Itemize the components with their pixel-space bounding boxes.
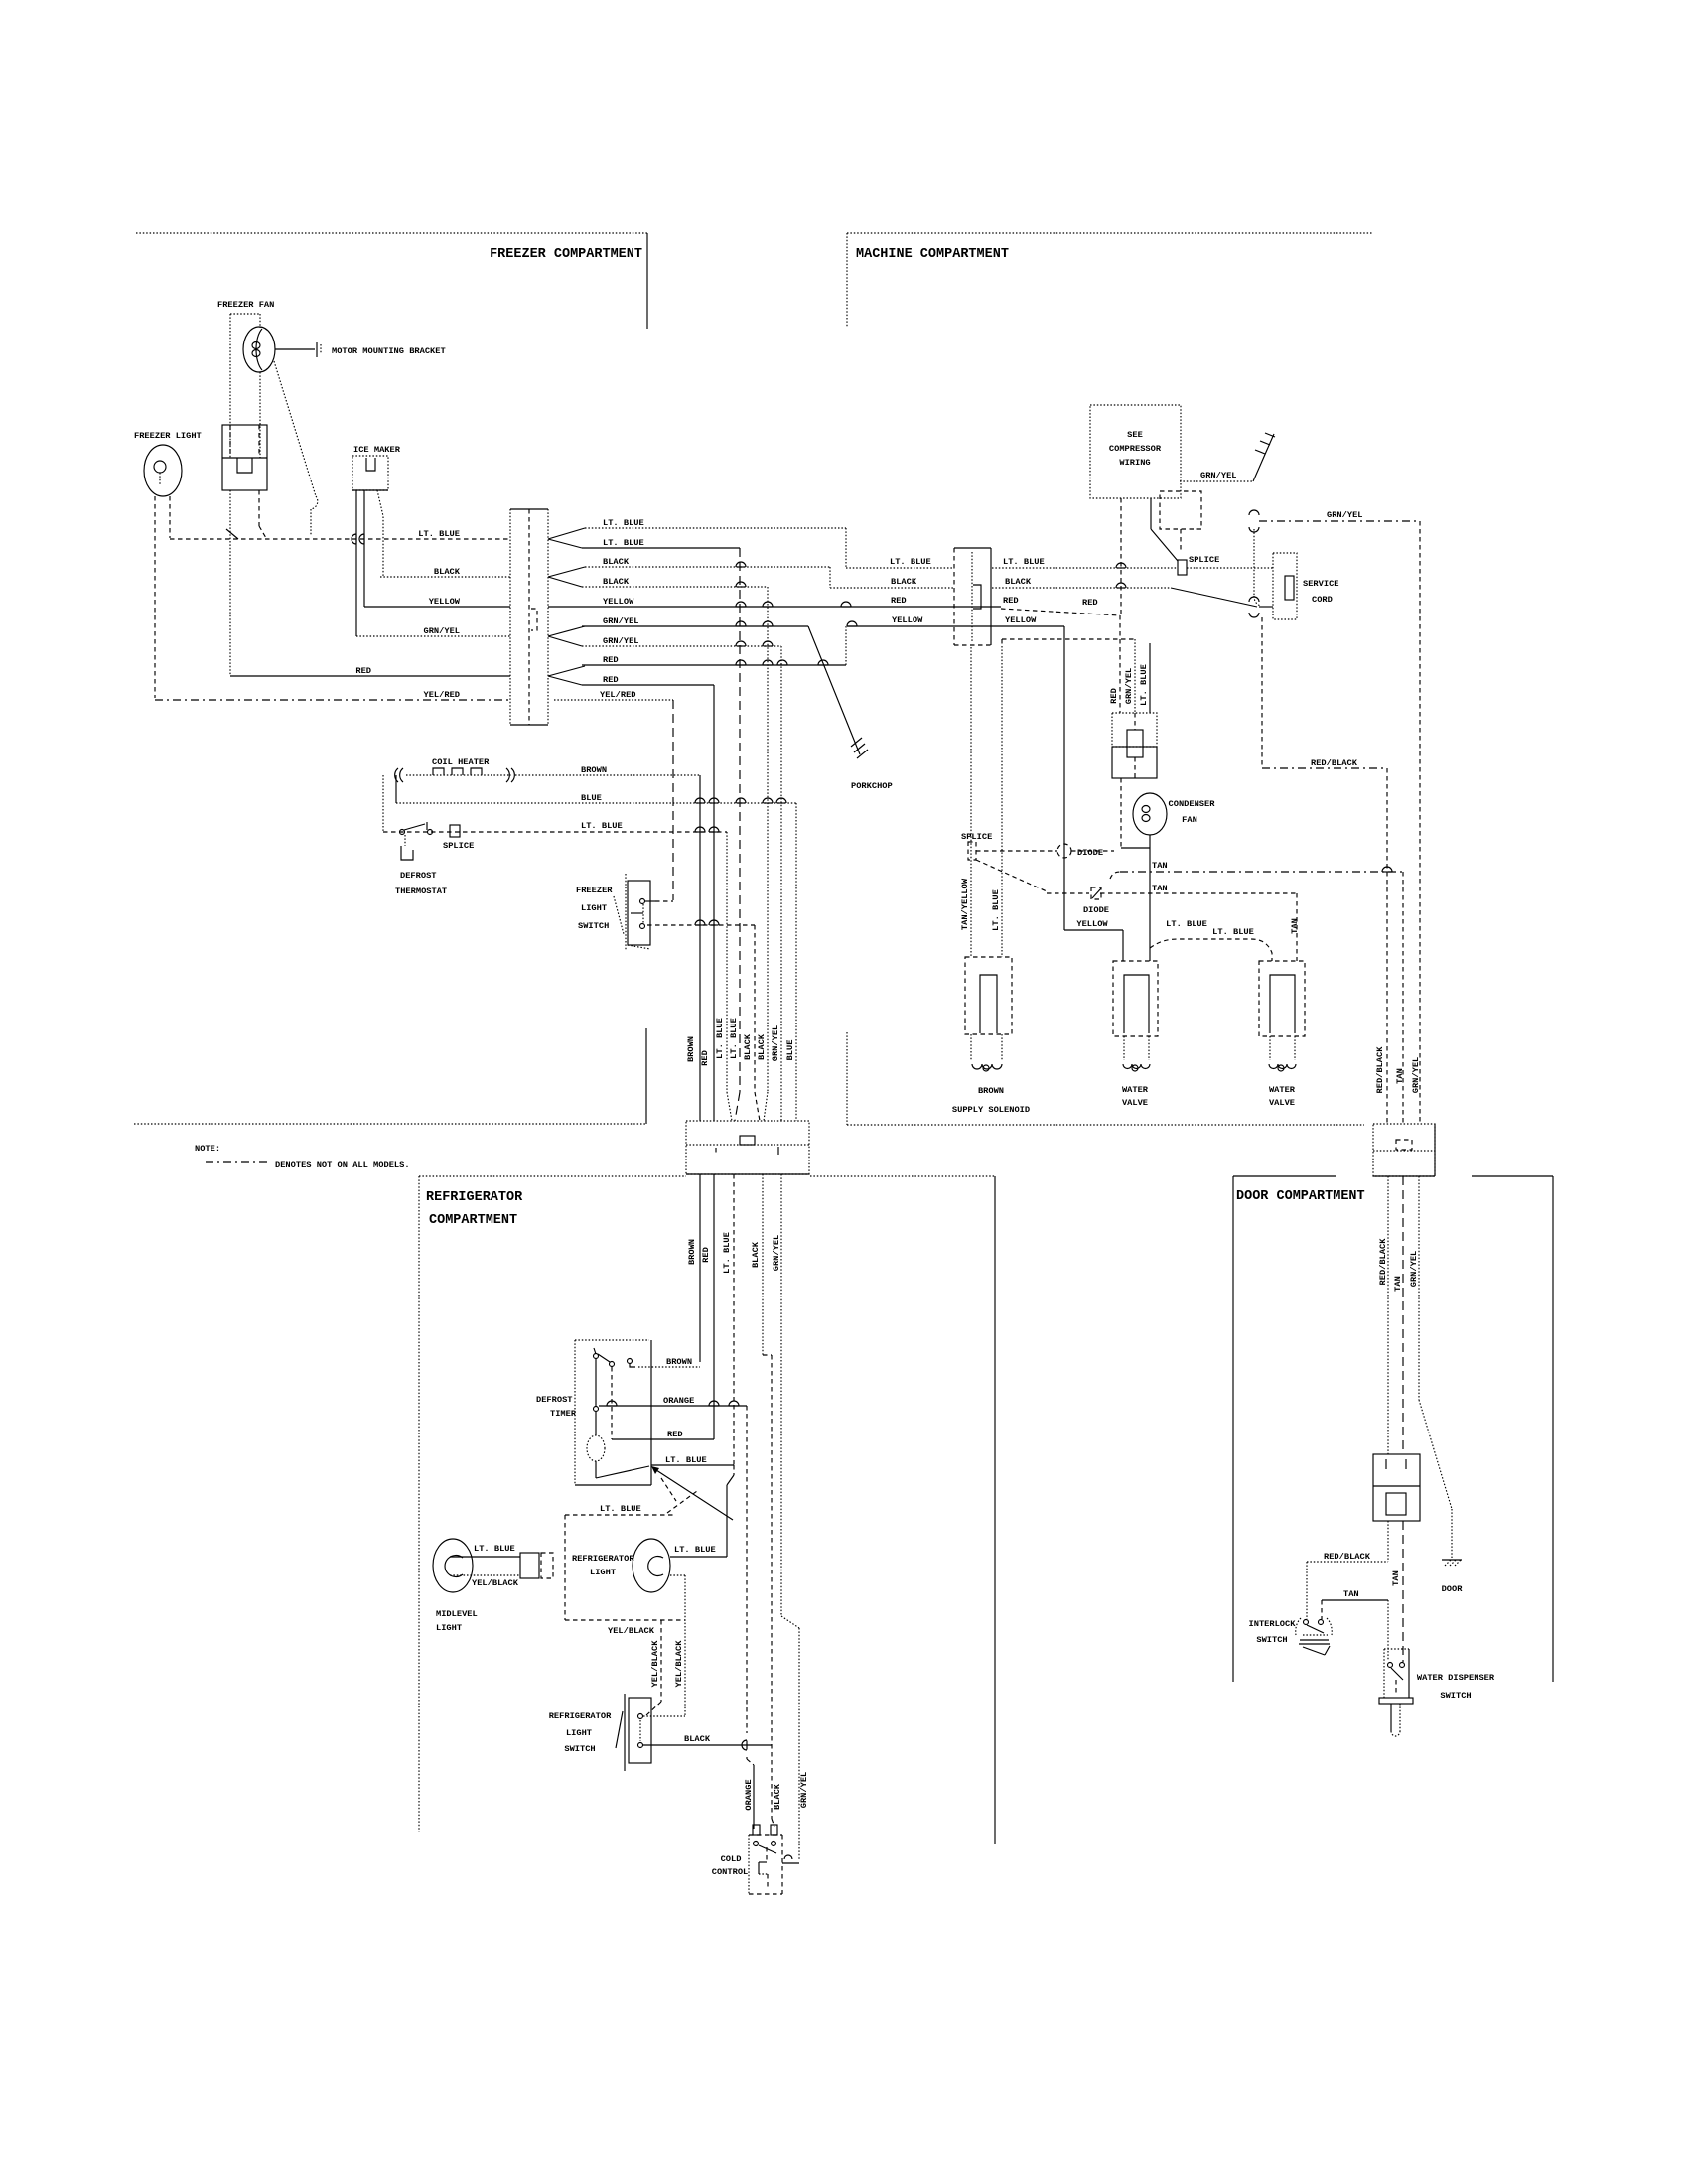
- svg-text:BLACK: BLACK: [751, 1241, 761, 1268]
- svg-text:TAN/YELLOW: TAN/YELLOW: [960, 878, 970, 930]
- water valve 1: [1113, 961, 1158, 1036]
- wire grn/yel row left: [356, 635, 510, 637]
- svg-text:YEL/RED: YEL/RED: [424, 690, 461, 700]
- svg-text:LT. BLUE: LT. BLUE: [603, 518, 644, 528]
- svg-text:LT. BLUE: LT. BLUE: [1139, 664, 1149, 706]
- heater left leg to blue row: [395, 775, 397, 803]
- svg-text:REFRIGERATOR: REFRIGERATOR: [426, 1190, 523, 1205]
- svg-text:GRN/YEL: GRN/YEL: [771, 1025, 780, 1062]
- svg-text:TAN: TAN: [1343, 1589, 1359, 1599]
- wire red row timer: [612, 1438, 714, 1440]
- svg-text:WATER DISPENSER: WATER DISPENSER: [1417, 1673, 1495, 1683]
- freezer compartment right border upper stub: [646, 233, 648, 329]
- svg-text:BLACK: BLACK: [757, 1033, 767, 1060]
- defrost timer contacts: [594, 1354, 599, 1359]
- svg-text:TAN: TAN: [1290, 918, 1300, 934]
- wire tan lower: [1402, 1521, 1404, 1662]
- switch lever on lt. blue row: [226, 529, 238, 539]
- wire lt. blue solid row to refrigerator: [582, 547, 740, 549]
- svg-text:GRN/YEL: GRN/YEL: [799, 1772, 809, 1809]
- bulb yel/black wire: [670, 1574, 685, 1576]
- wire lt. blue row machine: [846, 567, 954, 569]
- svg-text:LT. BLUE: LT. BLUE: [674, 1545, 716, 1555]
- svg-text:BLACK: BLACK: [684, 1734, 711, 1744]
- svg-text:RED/BLACK: RED/BLACK: [1324, 1552, 1371, 1562]
- wire black row left: [380, 576, 510, 578]
- timer dashed leg: [611, 1367, 613, 1439]
- black row diagonal to service cord: [1171, 588, 1257, 607]
- connector flag black pair: [548, 567, 585, 577]
- svg-text:GRN/YEL: GRN/YEL: [603, 636, 639, 646]
- wire yel/black row: [565, 1619, 685, 1621]
- svg-text:YELLOW: YELLOW: [1005, 615, 1037, 625]
- wire lt. blue row left: [170, 538, 510, 540]
- svg-text:LIGHT: LIGHT: [590, 1568, 616, 1577]
- wire hop bumps: [737, 606, 746, 608]
- water dispenser switch: [1383, 1649, 1385, 1698]
- svg-text:DENOTES NOT ON ALL MODELS.: DENOTES NOT ON ALL MODELS.: [275, 1160, 410, 1170]
- svg-text:TAN: TAN: [1391, 1570, 1401, 1586]
- fan block wire to red row: [229, 490, 231, 676]
- svg-text:MACHINE COMPARTMENT: MACHINE COMPARTMENT: [856, 247, 1009, 262]
- midlevel light wires: [450, 1556, 520, 1558]
- wire jog lt. blue: [845, 528, 847, 568]
- svg-text:BLUE: BLUE: [785, 1040, 795, 1061]
- svg-text:LT. BLUE: LT. BLUE: [600, 1504, 641, 1514]
- wire red row 2: [582, 684, 714, 686]
- relay to condenser fan wires: [1120, 778, 1122, 848]
- wire grn/yel dotted row: [582, 645, 781, 647]
- svg-text:CONTROL: CONTROL: [712, 1867, 749, 1877]
- svg-text:BROWN: BROWN: [666, 1357, 692, 1367]
- ice maker wire black: [377, 490, 383, 577]
- svg-text:FREEZER COMPARTMENT: FREEZER COMPARTMENT: [490, 247, 642, 262]
- wire black dotted row to machine: [585, 566, 830, 568]
- defrost timer box: [574, 1340, 576, 1485]
- wire grn/yel below connector: [780, 1174, 782, 1616]
- svg-text:RED: RED: [667, 1430, 683, 1439]
- wire grn/yel from compressor: [1180, 480, 1253, 482]
- svg-text:SEE: SEE: [1127, 430, 1143, 440]
- wire yellow to water valve: [1063, 626, 1065, 930]
- cold control right connection: [782, 1862, 799, 1864]
- refrigerator light bulb: [633, 1539, 670, 1592]
- refrigerator harness connector: [686, 1121, 809, 1174]
- lt. blue dashed link row: [565, 1514, 675, 1516]
- door ground: [1442, 1559, 1462, 1561]
- switch top terminal dotted wire: [643, 1715, 685, 1717]
- door compartment top border segments: [1233, 1175, 1336, 1177]
- refrigerator compartment left border: [418, 1176, 420, 1832]
- midlevel light bulb: [433, 1539, 473, 1592]
- freezer fan housing: [230, 313, 260, 315]
- svg-text:LT. BLUE: LT. BLUE: [581, 821, 623, 831]
- svg-text:LIGHT: LIGHT: [566, 1728, 592, 1738]
- svg-text:GRN/YEL: GRN/YEL: [603, 616, 639, 626]
- svg-text:LT. BLUE: LT. BLUE: [418, 529, 460, 539]
- diode 1 row: [976, 850, 1057, 852]
- splice 2 box: [968, 842, 976, 860]
- wire red vertical: [713, 685, 715, 1121]
- midlevel light socket: [520, 1553, 539, 1578]
- ice maker wire grn/yel: [355, 490, 357, 636]
- svg-text:MIDLEVEL: MIDLEVEL: [436, 1609, 478, 1619]
- wire grn/yel to relay: [1134, 639, 1136, 713]
- svg-text:COMPRESSOR: COMPRESSOR: [1109, 444, 1162, 454]
- wire red/black from service cord: [1261, 617, 1263, 768]
- svg-text:NOTE:: NOTE:: [195, 1144, 220, 1154]
- svg-text:LT. BLUE: LT. BLUE: [665, 1455, 707, 1465]
- wire yel/red row left: [155, 699, 510, 701]
- refrigerator compartment right border: [994, 1176, 996, 1844]
- svg-text:RED: RED: [1082, 598, 1098, 608]
- svg-text:BROWN: BROWN: [978, 1086, 1004, 1096]
- svg-text:SPLICE: SPLICE: [443, 841, 474, 851]
- wire black dotted row to refrigerator: [582, 586, 768, 588]
- svg-text:YEL/RED: YEL/RED: [600, 690, 636, 700]
- service cord break connector: [1249, 597, 1259, 602]
- wire tan row to interlock: [1322, 1599, 1388, 1601]
- wire from fan to lt. blue row: [274, 361, 316, 496]
- freezer compartment bottom border: [134, 1123, 646, 1125]
- svg-text:DEFROST: DEFROST: [536, 1395, 573, 1405]
- svg-text:CONDENSER: CONDENSER: [1169, 799, 1216, 809]
- wire black below connector: [762, 1174, 764, 1355]
- wire orange row: [599, 1405, 747, 1407]
- svg-text:TAN: TAN: [1393, 1276, 1403, 1292]
- svg-text:RED: RED: [1003, 596, 1019, 606]
- svg-text:TAN: TAN: [1152, 884, 1168, 893]
- svg-text:RED/BLACK: RED/BLACK: [1311, 758, 1358, 768]
- compressor black leg: [1150, 498, 1152, 529]
- svg-text:GRN/YEL: GRN/YEL: [424, 626, 461, 636]
- svg-text:RED: RED: [700, 1050, 710, 1066]
- freezer harness connector: [509, 509, 511, 725]
- svg-text:RED: RED: [355, 666, 371, 676]
- switch wire black dashed: [647, 924, 755, 926]
- svg-text:BLACK: BLACK: [603, 577, 630, 587]
- wire black dotted vertical: [767, 587, 769, 1092]
- svg-text:RED: RED: [891, 596, 907, 606]
- svg-text:THERMOSTAT: THERMOSTAT: [395, 887, 447, 896]
- wire lt. blue dashed vertical: [739, 548, 741, 1092]
- wire brown row: [515, 774, 700, 776]
- wire lt. blue to relay: [1149, 643, 1151, 713]
- wire lt. blue to bulb: [733, 1465, 735, 1475]
- wire red/black door vertical: [1387, 1176, 1389, 1454]
- wire lt. blue dotted vertical: [726, 832, 728, 1092]
- svg-text:LT. BLUE: LT. BLUE: [890, 557, 931, 567]
- wire yellow row left: [364, 606, 510, 608]
- svg-text:DOOR COMPARTMENT: DOOR COMPARTMENT: [1236, 1189, 1365, 1204]
- svg-text:GRN/YEL: GRN/YEL: [772, 1235, 781, 1272]
- svg-text:YEL/BLACK: YEL/BLACK: [608, 1626, 655, 1636]
- svg-text:DIODE: DIODE: [1083, 905, 1109, 915]
- freezer fan motor: [243, 327, 275, 372]
- door harness connector: [1373, 1124, 1435, 1176]
- grn/yel wire to porkchop ground: [808, 626, 860, 754]
- svg-text:DOOR: DOOR: [1442, 1584, 1464, 1594]
- wire orange vertical: [746, 1406, 748, 1733]
- svg-text:GRN/YEL: GRN/YEL: [1124, 668, 1134, 705]
- svg-text:SPLICE: SPLICE: [1189, 555, 1219, 565]
- svg-text:RED/BLACK: RED/BLACK: [1378, 1238, 1388, 1286]
- compressor dashed leg: [1120, 498, 1122, 615]
- svg-text:PORKCHOP: PORKCHOP: [851, 781, 893, 791]
- svg-text:YEL/BLACK: YEL/BLACK: [472, 1578, 519, 1588]
- svg-text:SUPPLY SOLENOID: SUPPLY SOLENOID: [952, 1105, 1030, 1115]
- svg-text:VALVE: VALVE: [1122, 1098, 1148, 1108]
- svg-text:CORD: CORD: [1312, 595, 1333, 605]
- svg-text:YELLOW: YELLOW: [1076, 919, 1108, 929]
- splice machine: [1178, 560, 1187, 575]
- svg-text:BLACK: BLACK: [434, 567, 461, 577]
- fan block wire to lt. blue row: [258, 490, 260, 526]
- wire grn/yel row to door: [1259, 520, 1420, 522]
- freezer compartment top border: [136, 232, 647, 234]
- cold control terminals stubs: [753, 1825, 760, 1835]
- svg-text:BROWN: BROWN: [581, 765, 607, 775]
- svg-text:SWITCH: SWITCH: [1256, 1635, 1287, 1645]
- svg-text:SWITCH: SWITCH: [578, 921, 609, 931]
- connector flag lt. blue pair: [548, 528, 585, 539]
- svg-text:YELLOW: YELLOW: [892, 615, 923, 625]
- freezer compartment right border lower stub: [645, 1028, 647, 1124]
- svg-text:BROWN: BROWN: [686, 1036, 696, 1062]
- svg-text:COLD: COLD: [721, 1854, 742, 1864]
- svg-text:SERVICE: SERVICE: [1303, 579, 1339, 589]
- dotted leg to lt. blue row: [382, 775, 384, 832]
- svg-text:ICE MAKER: ICE MAKER: [353, 445, 401, 455]
- wire jog black: [829, 567, 831, 588]
- svg-text:COMPARTMENT: COMPARTMENT: [429, 1213, 517, 1228]
- wire lt. blue dotted row to machine: [585, 527, 846, 529]
- dispenser left wire: [1387, 1600, 1389, 1660]
- door middle connector: [1373, 1454, 1420, 1521]
- wire lt. blue below connector: [733, 1174, 735, 1465]
- svg-text:FREEZER: FREEZER: [576, 886, 613, 895]
- svg-text:BLACK: BLACK: [1005, 577, 1032, 587]
- wire tan/yellow vertical: [970, 647, 972, 957]
- machine compartment left border lower stub: [846, 1032, 848, 1125]
- grn/yel break connector: [1249, 510, 1259, 515]
- svg-text:SWITCH: SWITCH: [564, 1744, 595, 1754]
- wire tan row 2: [1100, 892, 1297, 894]
- wire brown below connector: [699, 1174, 701, 1362]
- cold control box: [748, 1835, 750, 1894]
- wire brown vertical: [699, 775, 701, 1121]
- wire red row left: [230, 675, 510, 677]
- wire red dashed to relay: [1001, 609, 1120, 615]
- svg-text:LT. BLUE: LT. BLUE: [603, 538, 644, 548]
- coil heater: [395, 768, 403, 782]
- svg-text:YEL/BLACK: YEL/BLACK: [650, 1640, 660, 1688]
- wire yellow row machine side: [847, 625, 1064, 627]
- svg-text:LT. BLUE: LT. BLUE: [991, 889, 1001, 931]
- svg-text:RED: RED: [1109, 688, 1119, 704]
- wire red row 1: [582, 664, 846, 666]
- svg-text:BROWN: BROWN: [687, 1239, 697, 1265]
- splice box freezer: [450, 825, 460, 837]
- svg-text:INTERLOCK: INTERLOCK: [1249, 1619, 1297, 1629]
- freezer light bulb: [144, 445, 182, 496]
- svg-text:BLUE: BLUE: [581, 793, 602, 803]
- svg-text:GRN/YEL: GRN/YEL: [1200, 471, 1237, 480]
- machine compartment bottom border: [847, 1124, 1364, 1126]
- svg-text:LT. BLUE: LT. BLUE: [474, 1544, 515, 1554]
- motor mounting bracket pointer: [275, 348, 315, 350]
- defrost timer motor: [587, 1435, 605, 1461]
- grn/yel link to service cord: [1253, 529, 1255, 596]
- svg-text:TIMER: TIMER: [550, 1409, 577, 1419]
- freezer light switch: [625, 874, 627, 951]
- freezer fan motor block: [222, 425, 267, 490]
- freezer light wires: [154, 496, 156, 698]
- svg-text:LT. BLUE: LT. BLUE: [722, 1232, 732, 1274]
- pointer lines to timer: [653, 1468, 733, 1520]
- wire red/black lower: [1387, 1521, 1389, 1562]
- svg-text:LIGHT: LIGHT: [581, 903, 607, 913]
- condenser fan motor: [1133, 793, 1167, 835]
- svg-text:LT. BLUE: LT. BLUE: [729, 1018, 739, 1059]
- wire black row machine: [830, 587, 954, 589]
- wire jog red: [845, 626, 847, 665]
- wire yel/red row right: [554, 699, 673, 701]
- switch wire to yel/red: [645, 900, 655, 902]
- wire yellow/red row: [548, 606, 1001, 608]
- svg-text:REFRIGERATOR: REFRIGERATOR: [572, 1554, 634, 1564]
- dashed aux box: [1160, 491, 1201, 529]
- svg-text:ORANGE: ORANGE: [663, 1396, 694, 1406]
- svg-text:RED: RED: [701, 1247, 711, 1263]
- svg-text:LT. BLUE: LT. BLUE: [1166, 919, 1207, 929]
- wire lt. blue heater row: [383, 831, 727, 833]
- wire black dashed vertical: [754, 925, 756, 1092]
- wire brown into timer: [638, 1366, 700, 1368]
- connector flag grn/yel pair: [548, 626, 585, 636]
- water valve 2: [1259, 961, 1305, 1036]
- svg-text:RED: RED: [603, 675, 619, 685]
- wire black row switch: [643, 1744, 772, 1746]
- wire grn/yel solid row to porkchop: [582, 625, 808, 627]
- svg-text:FAN: FAN: [1182, 815, 1197, 825]
- wire grn/yel dotted vertical: [780, 646, 782, 1121]
- svg-text:MOTOR MOUNTING BRACKET: MOTOR MOUNTING BRACKET: [332, 346, 446, 356]
- wire grn/yel vertical to door: [1419, 521, 1421, 1124]
- door compartment left border: [1232, 1176, 1234, 1682]
- defrost thermostat stub: [404, 835, 406, 846]
- compressor chassis ground: [1253, 434, 1274, 481]
- door compartment right border: [1552, 1176, 1554, 1682]
- svg-text:GRN/YEL: GRN/YEL: [1327, 510, 1363, 520]
- yel/red vertical drop: [672, 700, 674, 900]
- svg-text:RED: RED: [603, 655, 619, 665]
- svg-text:LT. BLUE: LT. BLUE: [1212, 927, 1254, 937]
- svg-text:DIODE: DIODE: [1077, 848, 1103, 858]
- svg-text:BLACK: BLACK: [773, 1783, 782, 1810]
- refrigerator compartment top border: [419, 1175, 686, 1177]
- svg-text:LIGHT: LIGHT: [436, 1623, 462, 1633]
- svg-text:BLACK: BLACK: [891, 577, 917, 587]
- timer contact chain: [595, 1358, 597, 1407]
- wire red below connector: [713, 1174, 715, 1439]
- svg-text:BLACK: BLACK: [743, 1033, 753, 1060]
- wire lt. blue dashed to water valve 2: [1150, 939, 1272, 961]
- machine harness connector: [953, 548, 955, 645]
- start relay block: [1112, 713, 1157, 747]
- orange wire hop over black row: [746, 1741, 748, 1750]
- svg-text:REFRIGERATOR: REFRIGERATOR: [549, 1711, 612, 1721]
- svg-text:RED/BLACK: RED/BLACK: [1375, 1046, 1385, 1094]
- wire tan row 1: [1110, 872, 1120, 879]
- wire blue row: [396, 802, 796, 804]
- svg-text:BLACK: BLACK: [603, 557, 630, 567]
- svg-text:YELLOW: YELLOW: [603, 597, 634, 607]
- svg-text:DEFROST: DEFROST: [400, 871, 437, 881]
- service cord box: [1273, 553, 1297, 619]
- svg-text:COIL HEATER: COIL HEATER: [432, 757, 490, 767]
- machine compartment top border: [847, 232, 1372, 234]
- svg-text:WATER: WATER: [1122, 1085, 1149, 1095]
- svg-text:GRN/YEL: GRN/YEL: [1411, 1057, 1421, 1094]
- svg-text:LT. BLUE: LT. BLUE: [1003, 557, 1045, 567]
- brown supply solenoid: [965, 957, 1012, 1034]
- ice maker wire yellow: [363, 490, 365, 607]
- svg-text:TAN: TAN: [1395, 1068, 1405, 1084]
- diode 2 path: [976, 860, 1047, 891]
- svg-text:YELLOW: YELLOW: [429, 597, 461, 607]
- svg-text:GRN/YEL: GRN/YEL: [1409, 1251, 1419, 1288]
- svg-text:FREEZER FAN: FREEZER FAN: [217, 300, 274, 310]
- compressor wiring box: [1090, 405, 1181, 498]
- pointer dashed diagonal: [667, 1491, 697, 1513]
- porkchop ground hatch: [851, 738, 862, 747]
- refrigerator light switch: [624, 1694, 626, 1771]
- relay feed dashed row: [1002, 638, 1135, 640]
- wire grn/yel door: [1418, 1176, 1420, 1400]
- svg-text:WIRING: WIRING: [1119, 458, 1150, 468]
- wire lt. blue from fan: [1149, 835, 1151, 961]
- wire tan door vertical: [1402, 1176, 1404, 1454]
- svg-text:SPLICE: SPLICE: [961, 832, 992, 842]
- connector flag red pair: [548, 666, 585, 676]
- machine compartment left border upper stub: [846, 233, 848, 328]
- wire blue dotted vertical: [795, 803, 797, 1121]
- svg-text:FREEZER LIGHT: FREEZER LIGHT: [134, 431, 202, 441]
- defrost thermostat: [400, 830, 405, 835]
- svg-text:SWITCH: SWITCH: [1440, 1691, 1471, 1701]
- svg-text:VALVE: VALVE: [1269, 1098, 1295, 1108]
- svg-text:WATER: WATER: [1269, 1085, 1296, 1095]
- svg-text:ORANGE: ORANGE: [744, 1779, 754, 1810]
- svg-text:LT. BLUE: LT. BLUE: [715, 1018, 725, 1059]
- interlock switch: [1304, 1620, 1309, 1625]
- svg-text:YEL/BLACK: YEL/BLACK: [674, 1640, 684, 1688]
- wire lt. blue row timer: [651, 1464, 734, 1466]
- ice maker: [352, 456, 388, 490]
- svg-text:TAN: TAN: [1152, 861, 1168, 871]
- wire lt. blue vertical to solenoid: [1001, 646, 1003, 957]
